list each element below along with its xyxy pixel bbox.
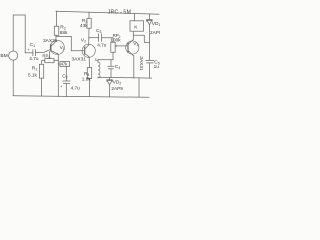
svg-text:L: L xyxy=(95,57,98,63)
wire C3 to RP2 xyxy=(102,38,113,43)
svg-text:1u: 1u xyxy=(154,64,160,69)
svg-text:4.7u: 4.7u xyxy=(29,56,39,61)
resistor R1 xyxy=(39,64,43,78)
svg-text:V3: V3 xyxy=(133,41,138,47)
svg-text:3AX31: 3AX31 xyxy=(138,56,144,71)
wire V1 emitter down to rail xyxy=(57,54,59,96)
wire emitter net horizontal xyxy=(98,76,152,79)
svg-text:JRC-5M: JRC-5M xyxy=(108,10,132,16)
wire 47k to C2 xyxy=(65,67,67,82)
diode VD2 xyxy=(107,78,112,97)
wire K top to rail xyxy=(134,14,136,21)
inductor L xyxy=(98,60,100,78)
wire R3 top to rail xyxy=(88,12,90,18)
capacitor C2 xyxy=(63,81,70,84)
svg-text:3AX31: 3AX31 xyxy=(43,38,58,44)
resistor R2 xyxy=(54,26,59,35)
wire RP1 right to emitter line xyxy=(54,60,58,62)
wire C1 to V1 base xyxy=(36,49,51,52)
svg-text:2AP9: 2AP9 xyxy=(150,30,160,35)
transistor V3 xyxy=(126,40,139,57)
svg-text:68k: 68k xyxy=(60,30,68,35)
wire V2 emitter to R4 xyxy=(88,57,90,68)
svg-text:C3: C3 xyxy=(96,28,102,34)
wire emitter line to 47k xyxy=(58,63,60,65)
svg-text:C4: C4 xyxy=(115,64,121,70)
transistor V1 xyxy=(50,40,64,54)
svg-text:+: + xyxy=(60,83,63,88)
wire mic top to loop xyxy=(13,15,25,53)
relay K xyxy=(130,21,144,31)
svg-text:VD2: VD2 xyxy=(113,80,122,86)
potentiometer RP2 xyxy=(111,42,128,52)
wire V1 collector to V2 base xyxy=(56,36,85,50)
wire C5 bottom to emitter net xyxy=(149,63,151,78)
svg-text:C2: C2 xyxy=(62,74,68,80)
wire bottom supply rail xyxy=(13,96,149,98)
wire K/VD1 junction xyxy=(133,35,149,42)
wire R2 top to rail xyxy=(56,11,58,26)
svg-text:V2: V2 xyxy=(81,38,86,44)
wire V3 collector to K xyxy=(132,31,134,39)
resistor R5 47k xyxy=(60,62,70,67)
svg-text:43k: 43k xyxy=(80,23,88,28)
svg-text:100k: 100k xyxy=(110,38,121,43)
svg-text:BM: BM xyxy=(0,53,7,59)
svg-text:1.8k: 1.8k xyxy=(82,77,92,82)
microphone BM xyxy=(9,51,18,60)
capacitor C5 xyxy=(146,60,154,63)
wire V3 emitter down xyxy=(133,56,135,78)
resistor R3 xyxy=(87,18,91,28)
svg-text:3AX31: 3AX31 xyxy=(72,56,87,62)
wire RP2 bottom to tank top xyxy=(112,52,114,59)
svg-text:VD1: VD1 xyxy=(152,21,160,27)
wire RP1 left to R1 xyxy=(42,61,45,65)
svg-text:R1: R1 xyxy=(32,66,38,72)
wire tank top xyxy=(98,59,113,61)
wire mic bottom to rail xyxy=(12,60,14,95)
svg-text:2AP9: 2AP9 xyxy=(111,86,123,91)
potentiometer RP1 xyxy=(45,52,54,63)
transistor V2 xyxy=(82,44,95,57)
diode VD1 xyxy=(147,14,153,60)
wire emitter net to bottom rail xyxy=(138,78,140,97)
resistor R4 xyxy=(87,68,91,79)
svg-text:4.7u: 4.7u xyxy=(71,86,81,91)
svg-text:4.7u: 4.7u xyxy=(97,42,107,47)
svg-text:C1: C1 xyxy=(30,42,36,48)
svg-text:47k: 47k xyxy=(61,62,69,67)
capacitor C3 xyxy=(99,34,102,41)
wire R4 to bottom rail xyxy=(88,79,90,97)
wire C1 input xyxy=(25,52,33,54)
capacitor C4 xyxy=(108,60,114,78)
wire V2 collector to C3 xyxy=(89,37,99,39)
svg-text:5.1k: 5.1k xyxy=(28,73,38,78)
wire top supply rail xyxy=(56,11,159,14)
wire C2 to bottom rail xyxy=(65,84,67,97)
wire R1 to bottom rail xyxy=(41,78,43,96)
wire V2 collector up xyxy=(88,28,90,45)
capacitor C1 xyxy=(33,50,36,56)
wire R2 bottom to V1 collector xyxy=(55,35,57,41)
